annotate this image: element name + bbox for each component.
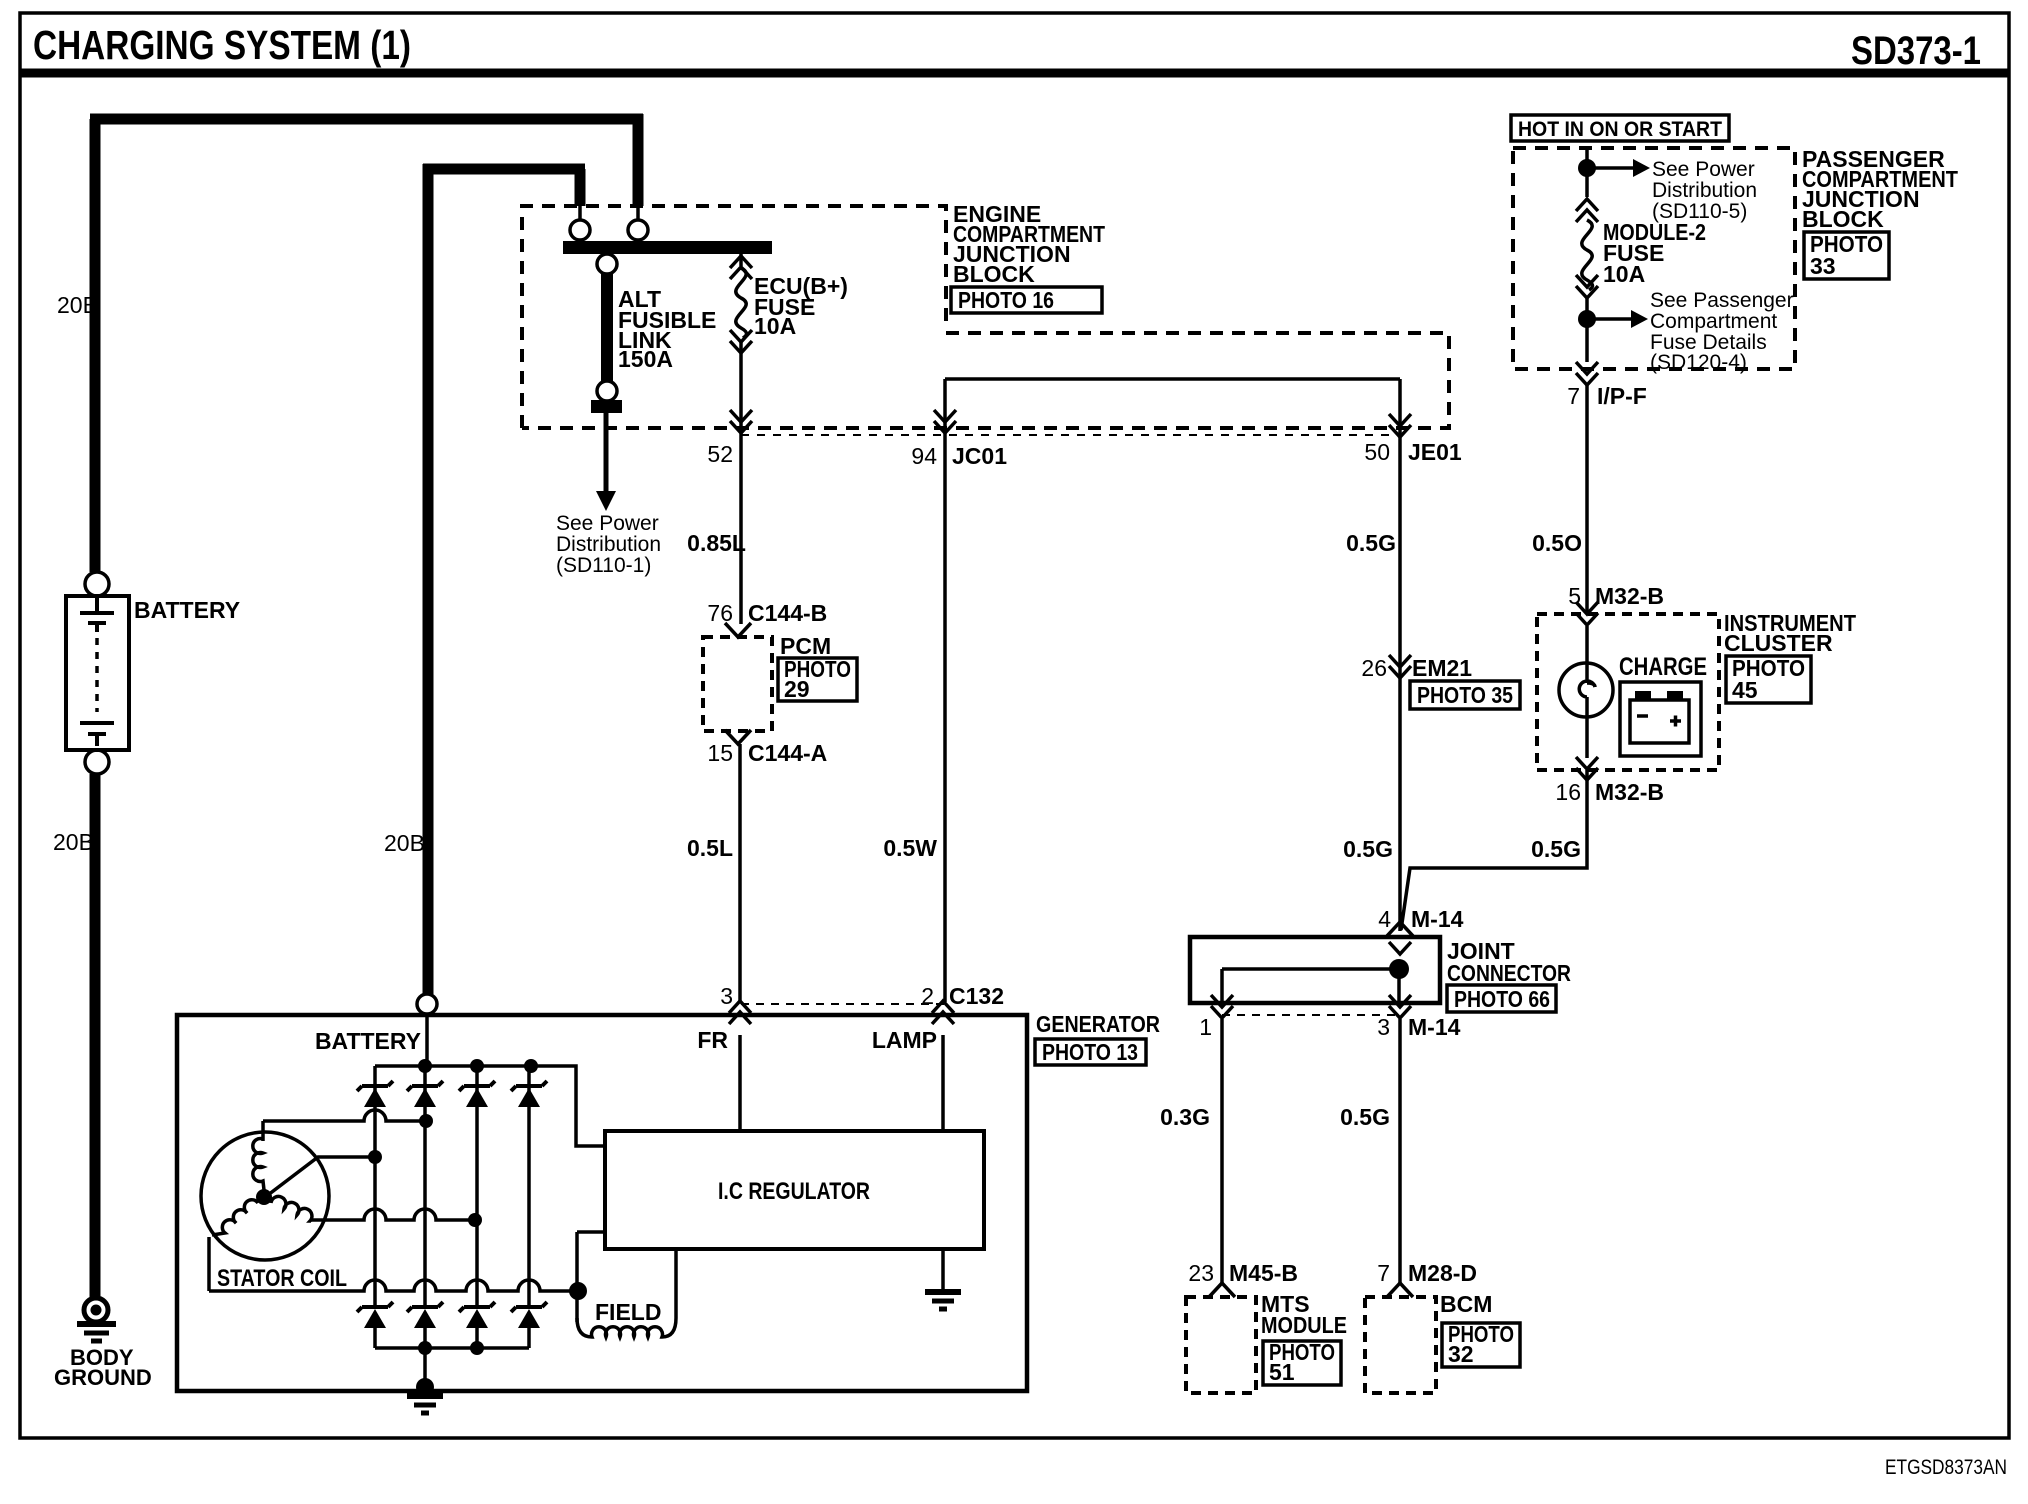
svg-text:M28-D: M28-D bbox=[1408, 1260, 1477, 1286]
svg-text:PHOTO 13: PHOTO 13 bbox=[1042, 1039, 1138, 1065]
svg-text:LAMP: LAMP bbox=[872, 1027, 937, 1053]
svg-text:See Power: See Power bbox=[1652, 158, 1755, 181]
svg-text:94: 94 bbox=[911, 443, 937, 469]
svg-text:M-14: M-14 bbox=[1411, 906, 1464, 932]
svg-text:BLOCK: BLOCK bbox=[953, 261, 1035, 287]
svg-text:GROUND: GROUND bbox=[54, 1365, 152, 1390]
svg-text:See Power: See Power bbox=[556, 512, 659, 535]
svg-text:M32-B: M32-B bbox=[1595, 779, 1664, 805]
svg-text:PHOTO 16: PHOTO 16 bbox=[958, 287, 1054, 313]
svg-text:M-14: M-14 bbox=[1408, 1014, 1461, 1040]
svg-text:0.5L: 0.5L bbox=[687, 835, 733, 861]
svg-text:PHOTO 66: PHOTO 66 bbox=[1454, 986, 1550, 1012]
svg-text:0.5G: 0.5G bbox=[1531, 836, 1581, 862]
svg-text:M45-B: M45-B bbox=[1229, 1260, 1298, 1286]
svg-text:BATTERY: BATTERY bbox=[134, 597, 240, 623]
svg-text:BLOCK: BLOCK bbox=[1802, 206, 1884, 232]
svg-text:C144-B: C144-B bbox=[748, 600, 827, 626]
svg-text:52: 52 bbox=[707, 441, 733, 467]
svg-text:3: 3 bbox=[720, 983, 733, 1009]
svg-text:0.5G: 0.5G bbox=[1343, 836, 1393, 862]
svg-text:3: 3 bbox=[1377, 1014, 1390, 1040]
svg-text:(SD120-4): (SD120-4) bbox=[1650, 351, 1747, 374]
svg-text:STATOR COIL: STATOR COIL bbox=[217, 1265, 347, 1292]
svg-text:0.5O: 0.5O bbox=[1532, 530, 1582, 556]
svg-text:20B: 20B bbox=[57, 292, 98, 318]
svg-text:FIELD: FIELD bbox=[595, 1299, 661, 1325]
svg-text:SD373-1: SD373-1 bbox=[1851, 29, 1981, 73]
svg-text:JC01: JC01 bbox=[952, 443, 1007, 469]
svg-text:150A: 150A bbox=[618, 346, 673, 372]
svg-text:10A: 10A bbox=[754, 313, 796, 339]
svg-text:1: 1 bbox=[1199, 1014, 1212, 1040]
svg-text:7: 7 bbox=[1567, 383, 1580, 409]
svg-text:15: 15 bbox=[707, 740, 733, 766]
svg-text:CLUSTER: CLUSTER bbox=[1724, 630, 1833, 656]
svg-text:(SD110-1): (SD110-1) bbox=[556, 554, 651, 577]
svg-text:0.85L: 0.85L bbox=[687, 530, 746, 556]
svg-text:4: 4 bbox=[1378, 906, 1391, 932]
svg-text:JE01: JE01 bbox=[1408, 439, 1462, 465]
svg-text:CHARGE: CHARGE bbox=[1619, 653, 1707, 681]
svg-text:29: 29 bbox=[784, 676, 810, 702]
svg-text:CHARGING SYSTEM (1): CHARGING SYSTEM (1) bbox=[33, 22, 411, 68]
svg-text:76: 76 bbox=[707, 600, 733, 626]
svg-text:Compartment: Compartment bbox=[1650, 310, 1777, 333]
svg-text:GENERATOR: GENERATOR bbox=[1036, 1011, 1160, 1037]
svg-text:EM21: EM21 bbox=[1412, 655, 1472, 681]
svg-text:20B: 20B bbox=[384, 830, 425, 856]
svg-text:Distribution: Distribution bbox=[1652, 179, 1757, 202]
svg-text:0.3G: 0.3G bbox=[1160, 1104, 1210, 1130]
svg-text:HOT IN ON OR START: HOT IN ON OR START bbox=[1518, 118, 1722, 141]
svg-text:16: 16 bbox=[1555, 779, 1581, 805]
svg-text:23: 23 bbox=[1188, 1260, 1214, 1286]
svg-text:0.5W: 0.5W bbox=[883, 835, 937, 861]
svg-text:See Passenger: See Passenger bbox=[1650, 289, 1794, 312]
svg-text:C144-A: C144-A bbox=[748, 740, 827, 766]
svg-text:PHOTO 35: PHOTO 35 bbox=[1417, 682, 1513, 708]
svg-text:26: 26 bbox=[1361, 655, 1387, 681]
svg-text:I.C REGULATOR: I.C REGULATOR bbox=[718, 1178, 870, 1205]
svg-text:BATTERY: BATTERY bbox=[315, 1028, 421, 1054]
svg-text:I/P-F: I/P-F bbox=[1597, 383, 1647, 409]
svg-text:32: 32 bbox=[1448, 1341, 1474, 1367]
svg-text:50: 50 bbox=[1364, 439, 1390, 465]
svg-text:MODULE: MODULE bbox=[1261, 1312, 1347, 1338]
svg-text:Distribution: Distribution bbox=[556, 533, 661, 556]
svg-text:0.5G: 0.5G bbox=[1340, 1104, 1390, 1130]
svg-text:7: 7 bbox=[1377, 1260, 1390, 1286]
svg-text:0.5G: 0.5G bbox=[1346, 530, 1396, 556]
svg-text:10A: 10A bbox=[1603, 261, 1645, 287]
svg-text:51: 51 bbox=[1269, 1359, 1295, 1385]
svg-text:45: 45 bbox=[1732, 677, 1758, 703]
svg-text:CONNECTOR: CONNECTOR bbox=[1447, 960, 1571, 986]
svg-text:M32-B: M32-B bbox=[1595, 583, 1664, 609]
svg-text:33: 33 bbox=[1810, 253, 1836, 279]
svg-text:C132: C132 bbox=[949, 983, 1004, 1009]
svg-text:20B: 20B bbox=[53, 829, 94, 855]
svg-text:BCM: BCM bbox=[1440, 1291, 1492, 1317]
svg-text:ETGSD8373AN: ETGSD8373AN bbox=[1885, 1456, 2007, 1479]
svg-text:FR: FR bbox=[697, 1027, 728, 1053]
svg-text:2: 2 bbox=[921, 983, 934, 1009]
